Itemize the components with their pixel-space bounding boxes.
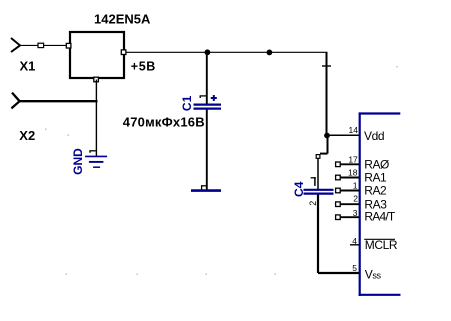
svg-text:C4: C4	[292, 181, 306, 197]
svg-text:4: 4	[352, 236, 357, 246]
svg-text:3: 3	[353, 208, 358, 218]
svg-text:14: 14	[349, 125, 359, 135]
svg-text:18: 18	[348, 167, 358, 177]
svg-text:1: 1	[353, 181, 358, 191]
svg-text:RAØ: RAØ	[364, 157, 389, 171]
svg-text:RA1: RA1	[364, 170, 387, 184]
svg-text:RA4/T: RA4/T	[364, 210, 395, 224]
svg-text:C1: C1	[180, 95, 194, 111]
svg-text:+5В: +5В	[131, 60, 156, 74]
svg-text:GND: GND	[71, 148, 85, 175]
svg-text:X2: X2	[19, 128, 35, 143]
svg-text:2: 2	[308, 201, 318, 206]
svg-text:5: 5	[352, 263, 357, 273]
svg-text:142EN5A: 142EN5A	[94, 12, 151, 27]
svg-text:X1: X1	[20, 59, 36, 74]
svg-text:17: 17	[348, 154, 358, 164]
svg-text:2: 2	[353, 194, 358, 204]
svg-text:MCLR: MCLR	[365, 238, 398, 252]
svg-text:470мкФх16В: 470мкФх16В	[123, 114, 205, 129]
svg-text:Vss: Vss	[365, 268, 382, 282]
svg-text:RA2: RA2	[364, 184, 387, 198]
svg-text:Vdd: Vdd	[364, 129, 384, 143]
